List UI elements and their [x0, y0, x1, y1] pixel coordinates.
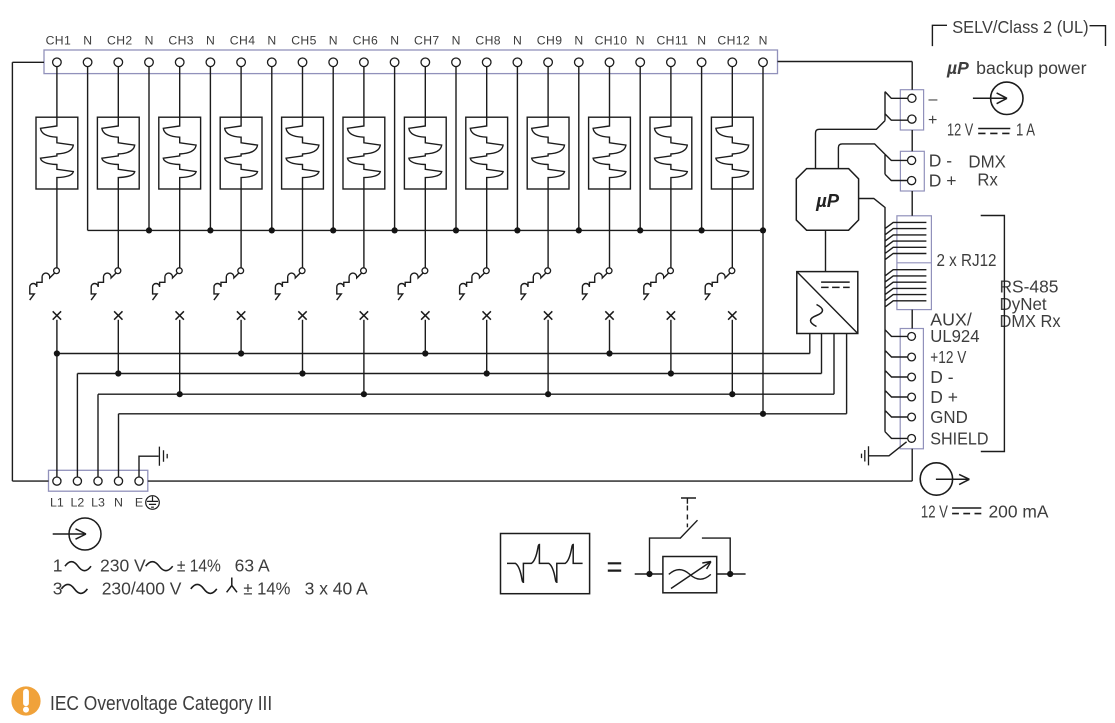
svg-text:1 A: 1 A	[1016, 119, 1035, 139]
svg-text:N: N	[697, 34, 706, 48]
svg-text:CH7: CH7	[414, 34, 440, 48]
svg-text:µP: µP	[815, 190, 840, 211]
svg-text:L3: L3	[91, 496, 105, 510]
svg-text:UL924: UL924	[930, 326, 979, 346]
svg-text:+: +	[928, 112, 937, 129]
svg-text:230 V: 230 V	[100, 556, 146, 576]
svg-text:N: N	[145, 34, 154, 48]
svg-text:N: N	[329, 34, 338, 48]
svg-text:N: N	[114, 496, 123, 510]
svg-text:N: N	[636, 34, 645, 48]
svg-text:2 x RJ12: 2 x RJ12	[937, 250, 997, 270]
svg-text:CH10: CH10	[595, 34, 628, 48]
svg-text:CH1: CH1	[46, 34, 72, 48]
svg-text:Rx: Rx	[977, 170, 998, 190]
svg-text:IEC Overvoltage Category III: IEC Overvoltage Category III	[50, 693, 272, 715]
svg-text:N: N	[390, 34, 399, 48]
svg-text:CH11: CH11	[656, 34, 688, 48]
svg-text:1: 1	[53, 556, 63, 576]
svg-text:CH3: CH3	[168, 34, 194, 48]
svg-text:200 mA: 200 mA	[989, 501, 1049, 521]
svg-text:CH5: CH5	[291, 34, 317, 48]
svg-text:µP: µP	[946, 58, 969, 78]
svg-text:CH2: CH2	[107, 34, 133, 48]
svg-text:CH6: CH6	[353, 34, 379, 48]
svg-text:3 x 40 A: 3 x 40 A	[305, 578, 369, 598]
svg-text:DMX Rx: DMX Rx	[1000, 311, 1061, 331]
svg-text:± 14%: ± 14%	[177, 556, 221, 576]
svg-text:D -: D -	[929, 150, 953, 170]
svg-text:SELV/Class 2 (UL): SELV/Class 2 (UL)	[952, 17, 1088, 37]
svg-text:backup power: backup power	[976, 58, 1086, 78]
svg-text:CH8: CH8	[475, 34, 501, 48]
svg-text:CH9: CH9	[537, 34, 563, 48]
svg-text:L2: L2	[71, 496, 85, 510]
svg-text:± 14%: ± 14%	[243, 578, 290, 598]
svg-text:12 V: 12 V	[947, 119, 973, 139]
svg-text:CH12: CH12	[717, 34, 750, 48]
svg-text:SHIELD: SHIELD	[930, 428, 988, 448]
svg-text:N: N	[267, 34, 276, 48]
svg-text:+12 V: +12 V	[930, 347, 966, 367]
svg-text:–: –	[929, 91, 938, 108]
svg-text:L1: L1	[50, 496, 64, 510]
svg-text:230/400 V: 230/400 V	[102, 578, 182, 598]
svg-text:CH4: CH4	[230, 34, 256, 48]
svg-text:N: N	[206, 34, 215, 48]
svg-text:E: E	[135, 496, 143, 510]
svg-text:N: N	[513, 34, 522, 48]
svg-text:12 V: 12 V	[921, 501, 948, 521]
svg-text:N: N	[83, 34, 92, 48]
svg-text:D -: D -	[930, 367, 954, 387]
svg-text:GND: GND	[930, 407, 968, 427]
svg-text:N: N	[574, 34, 583, 48]
svg-text:D +: D +	[930, 387, 958, 407]
svg-text:N: N	[759, 34, 768, 48]
svg-text:N: N	[452, 34, 461, 48]
svg-text:D +: D +	[929, 171, 957, 191]
svg-text:63 A: 63 A	[235, 556, 270, 576]
